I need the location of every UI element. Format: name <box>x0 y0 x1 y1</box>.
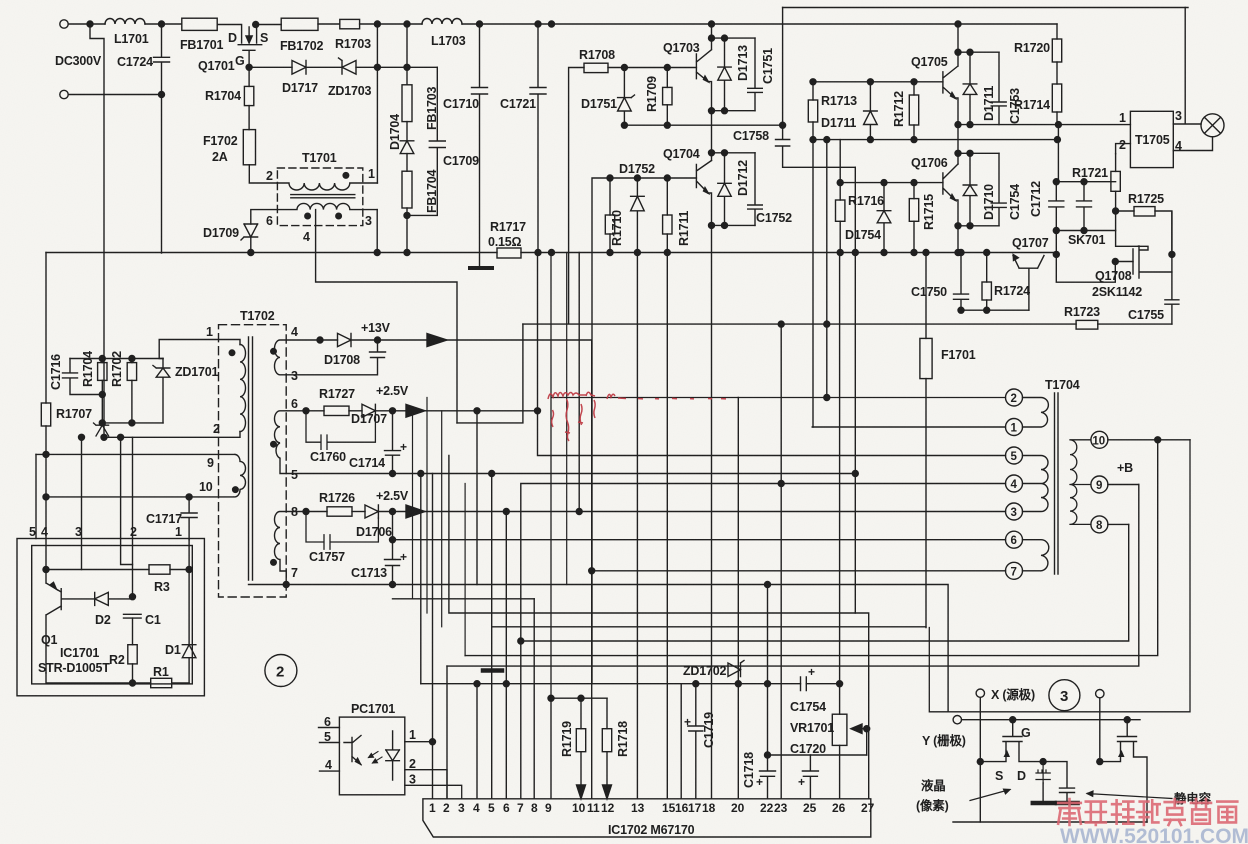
demo arrow lc <box>970 789 1010 800</box>
VR1701 wiper arrow <box>851 724 867 733</box>
row 598 <box>393 598 535 600</box>
wire T1701 pin3 down <box>376 210 378 253</box>
inductor L1703 <box>422 19 462 25</box>
row4 to T1704 pin4 <box>521 484 1006 799</box>
wire T1705 pin2 <box>1116 144 1131 154</box>
diode D1712 <box>718 153 731 226</box>
resistor R1707 <box>41 403 50 426</box>
capacitor C1721 <box>530 24 546 253</box>
PC1701 pin4 stub <box>320 770 340 772</box>
capacitor C1714 <box>385 411 401 474</box>
row 641 <box>521 524 1129 641</box>
node D1709 bus <box>248 250 254 256</box>
extra mesh columns <box>412 411 414 599</box>
diode D1710 <box>963 153 977 226</box>
cap C1714e under 13V <box>286 340 385 375</box>
wire D1712 top row <box>712 152 756 154</box>
diode D1706 <box>365 505 378 518</box>
column pin7 IC <box>520 484 522 512</box>
resistor R1708 <box>584 63 608 72</box>
T1704 circled pin 9 <box>1091 476 1108 493</box>
wire F1702 to T1701 pin2 <box>249 165 277 183</box>
resistor R3 <box>149 565 170 574</box>
column R1713 to mesh <box>812 82 814 100</box>
row pin7 <box>249 585 949 712</box>
diode D1754 <box>877 183 891 253</box>
diode D1711 <box>864 82 878 140</box>
node mesh dots <box>474 681 480 687</box>
T1704 winding c <box>1023 540 1049 571</box>
pin3 column <box>81 437 83 569</box>
phasing dot aux <box>233 487 239 493</box>
resistor R1725 <box>1116 210 1134 212</box>
node R1721 R1725 <box>1113 208 1119 214</box>
PC1701 phototransistor <box>344 736 361 765</box>
column pin22 C1718 <box>760 585 776 799</box>
wire pin5 col <box>35 454 37 538</box>
resistor R1704b <box>101 359 103 363</box>
demo terminal X <box>976 689 984 697</box>
node bus R1710 D1752 R1711 <box>607 250 613 256</box>
row C1720 <box>768 754 867 756</box>
resistor R1721 <box>1115 154 1117 172</box>
node collector Q1707 <box>1053 251 1059 257</box>
T1704 circled pin 2 <box>1006 389 1023 406</box>
R1718 chain <box>579 253 607 729</box>
row6 to T1704 pin6 <box>393 539 1006 541</box>
arrow 2.5V a <box>406 404 425 417</box>
node gate <box>246 64 252 70</box>
diode D1 <box>182 570 196 684</box>
PC1701 pin6 stub <box>319 727 340 729</box>
wire Q1705 collector to rail <box>957 24 959 52</box>
T1704 circled pin 6 <box>1006 531 1023 548</box>
snubber rail top <box>70 358 163 360</box>
T1704 winding b <box>1023 456 1049 512</box>
internal rail R3 <box>46 569 149 571</box>
node row2 <box>824 395 830 401</box>
wire D1713 C1751 top row <box>712 37 756 39</box>
node j1 <box>87 21 93 27</box>
diode D1752 <box>631 178 645 253</box>
wire Q1707 base row <box>961 309 1029 311</box>
legend circle 3 <box>1049 680 1080 711</box>
resistor R1704 <box>248 67 250 86</box>
wire terminal2 to C1724 column <box>68 94 161 96</box>
transformer T1701 dashed box <box>277 168 362 226</box>
wire rail L1703 to R1720 <box>462 23 1057 25</box>
column pin13 IC <box>636 253 638 799</box>
column pin5 IC <box>491 474 493 799</box>
red scribble wave <box>548 392 595 399</box>
transistor Q1706 <box>943 164 958 253</box>
IC1701 inner box <box>32 546 193 684</box>
transformer T1702 dashed box <box>219 325 287 597</box>
node C1709 tap <box>404 212 410 218</box>
node C1721 top <box>535 21 541 27</box>
row ZD1702 <box>421 683 840 685</box>
node bus C1724 <box>535 250 541 256</box>
PC1701 led <box>386 731 400 780</box>
column pin20 ZD1702 <box>737 398 739 799</box>
column pin17 C1719 <box>688 684 704 799</box>
node bus right dots <box>837 250 843 256</box>
fuse F1701 <box>925 253 927 339</box>
diode D1709 <box>241 224 258 240</box>
PC1701 pin2 <box>405 770 447 799</box>
wire Q1704 emitter row <box>712 224 756 226</box>
link Q1705 emitter Q1706 collector <box>957 125 959 164</box>
T1701 primary winding <box>277 183 377 190</box>
snubber rail bottom <box>102 422 163 424</box>
node pin3 bus <box>374 250 380 256</box>
lamp backlight <box>1201 114 1224 137</box>
PC1701 pin5 stub <box>320 742 340 744</box>
T1704 circled pin 3 <box>1006 503 1023 520</box>
capacitor C1709 branch <box>407 67 445 215</box>
wire rail L1701 to FB1701 <box>145 23 182 25</box>
red small blobs <box>565 422 583 433</box>
node Q1704 collector <box>709 150 715 156</box>
resistor R1702 <box>131 359 133 363</box>
column FB1703 D1704 FB1704 <box>406 24 408 85</box>
capacitor C1750 <box>954 253 969 311</box>
diode D1708 <box>338 333 352 346</box>
arrow 2.5V b <box>406 505 425 518</box>
mosfet Q1701 <box>238 25 262 68</box>
transistor Q1707 <box>1013 256 1044 311</box>
T1701 phasing dots secondary <box>305 213 311 219</box>
node j2 <box>159 21 165 27</box>
capacitor C1755 <box>1165 212 1179 324</box>
zener snubber to pin2 row <box>94 423 109 437</box>
capacitor C1717 <box>181 497 197 540</box>
wire pin10 right <box>1108 439 1190 441</box>
potentiometer VR1701 <box>839 684 841 715</box>
row 654 <box>465 440 1158 656</box>
pin1 column <box>188 540 190 570</box>
wire row T1701 tap <box>457 324 523 423</box>
row7 to T1704 pin7 <box>592 340 1006 799</box>
zener ZD1703 <box>339 58 357 74</box>
IC1701 outer box <box>17 539 204 696</box>
transistor Q1704 <box>696 161 711 226</box>
resistor R2 <box>132 618 134 645</box>
watermark chinese pseudo-glyphs <box>1058 799 1237 825</box>
resistor R1711 <box>666 178 668 215</box>
demo X column <box>979 697 981 822</box>
diode D1704 <box>400 141 414 154</box>
wire dc negative drop <box>90 24 104 437</box>
T1704 circled pin 4 <box>1006 475 1023 492</box>
node gate right <box>374 64 380 70</box>
T1701 secondary winding <box>277 203 377 209</box>
node j5 <box>404 64 410 70</box>
demo tft1 <box>980 720 1043 762</box>
left tall wire to IC1701 <box>45 253 47 404</box>
red vertical wiggles <box>552 399 596 441</box>
T1704 circled pin 5 <box>1006 447 1023 464</box>
diode D1713 <box>718 38 731 111</box>
wire pin9 right <box>1108 484 1139 486</box>
row 627 <box>492 626 926 628</box>
resistor R1717 on bus <box>497 248 521 258</box>
terminal T- DC300V <box>60 90 68 98</box>
PC1701 box <box>339 717 404 795</box>
phasing dot primary <box>229 350 235 356</box>
row 613 <box>449 456 869 799</box>
wire T1701 pin6 left <box>251 210 278 224</box>
capacitor C1753 <box>991 52 1006 124</box>
wire pin8 right <box>1108 523 1129 525</box>
T1702 secondary 6-5 <box>275 411 287 474</box>
pin2 column D2 node <box>132 437 134 596</box>
demo tft2 <box>1100 720 1147 822</box>
wire row 138 <box>813 139 1057 141</box>
column pin16 IC <box>680 684 682 799</box>
diode D1711b <box>963 52 977 124</box>
demo terminal right <box>1096 690 1104 698</box>
zener ZD1702 <box>728 661 744 677</box>
column pin4 IC <box>476 411 478 585</box>
column pin23 IC <box>780 324 782 799</box>
PC1701 led arrows <box>369 752 383 764</box>
demo terminal Y <box>953 716 961 724</box>
T1704 core <box>1055 393 1059 574</box>
column pin1 IC <box>432 474 434 799</box>
top loop wire <box>783 7 1188 9</box>
wire collector row to C1753 <box>958 51 999 53</box>
row5 feed +2.5a <box>538 253 1006 456</box>
wire Q1704 base row <box>592 178 696 684</box>
resistor R1712 <box>913 82 915 95</box>
gate wire Q1701 row <box>249 66 437 68</box>
node Q1705 collector row <box>955 49 961 55</box>
node D1713 top <box>722 35 728 41</box>
row 712 <box>929 440 1190 712</box>
gate link path <box>1056 254 1133 282</box>
legend circle 2 <box>265 655 297 687</box>
row 666 <box>447 485 1139 667</box>
node rail Q1703 <box>709 21 715 27</box>
column C1758 from top loop <box>776 8 856 168</box>
resistor R1720 <box>1056 24 1058 39</box>
wire R1703 to L1703 <box>360 23 422 25</box>
capacitor C1760 <box>306 411 375 450</box>
R1719 chain <box>551 698 607 729</box>
wire Q1706 emitter row <box>958 225 999 227</box>
IC1702 body <box>423 799 871 837</box>
totem pole link <box>711 111 713 161</box>
wire top rail left <box>68 23 105 25</box>
node FB1704 bus <box>404 250 410 256</box>
cluster C1712 SK701 <box>1049 125 1116 231</box>
node C1724 cross <box>159 92 165 98</box>
capacitor C1752 <box>748 153 763 226</box>
wire base bottoms row y125 <box>624 124 782 126</box>
diode D1717 <box>292 61 306 75</box>
T1704 right winding <box>1070 440 1091 525</box>
resistor R1727 <box>324 406 349 415</box>
red dashes along row <box>638 397 726 400</box>
mosfet Q1708 <box>1133 246 1172 278</box>
T1704 circled pin 8 <box>1091 516 1108 533</box>
column row167 to bus <box>854 167 856 613</box>
wire FB1701 to Q1701 drain <box>217 25 241 44</box>
T1701 core <box>291 195 355 198</box>
demo lc pixel <box>1040 759 1046 765</box>
PC1701 pin3 <box>405 785 462 799</box>
column R1708 left down <box>569 68 584 324</box>
demo column right terminal <box>1099 698 1101 762</box>
T1704 circled pin 1 <box>1006 419 1023 436</box>
T1704 circled pin 10 <box>1091 431 1108 448</box>
capacitor C1710 <box>472 24 488 268</box>
capacitor C1754s <box>801 677 807 691</box>
T1702 pin1 wire <box>159 340 240 359</box>
wire Q1706 base row <box>840 182 943 184</box>
ground bar under C1710 <box>470 266 492 270</box>
node row1 dots <box>778 321 784 327</box>
resistor R1715 <box>913 183 915 199</box>
fuse bead FB1701 <box>182 18 217 30</box>
wire Q1705 base row <box>813 81 943 83</box>
SECTION_TEXT <box>548 392 726 441</box>
wire rail Q1701 to FB1702 <box>256 24 282 26</box>
SECTION_RED <box>0 0 1 1</box>
diode D1707 <box>362 404 375 417</box>
resistor R1724 <box>986 253 988 283</box>
capacitor C1713 <box>385 512 401 585</box>
row pin6 +2.5V <box>286 410 324 412</box>
resistor R1703 <box>340 19 360 28</box>
node Q1703 collector tap <box>709 35 715 41</box>
wire row 153 <box>958 152 999 154</box>
resistor R1709 <box>666 68 668 88</box>
column pin9 IC <box>550 698 552 799</box>
thick cal bar <box>483 668 502 673</box>
PC1701 pin1 <box>405 741 433 743</box>
capacitor C1751 <box>748 38 763 111</box>
capacitor C1720 <box>802 755 818 799</box>
terminal T+ DC300V <box>60 20 68 28</box>
column VR feed <box>839 253 841 684</box>
T1702 secondary 8-7 <box>275 512 287 585</box>
inductor L1701 <box>105 19 145 25</box>
fuse F1702 <box>243 130 255 165</box>
capacitor C1757 <box>306 512 378 550</box>
row1 to T1704 pin1 <box>812 426 1005 428</box>
node VR top <box>837 681 843 687</box>
row pin8 +2.5V <box>286 511 327 513</box>
T1704 circled pin 7 <box>1006 562 1023 579</box>
T1702 core <box>249 337 253 580</box>
column pin15 IC <box>666 253 668 799</box>
capacitor C1754u <box>991 153 1006 226</box>
red squiggle mid <box>607 394 626 399</box>
transistor Q1703 <box>696 24 711 111</box>
transistor Q1705 <box>943 52 958 124</box>
wire FB1702 to R1703 <box>318 23 340 25</box>
node D1751 top <box>621 65 627 71</box>
node j4 <box>404 21 410 27</box>
wire T1705 pin4 to lamp <box>1173 137 1212 151</box>
resistor R1726 <box>327 507 352 516</box>
demo gate row <box>962 719 1141 721</box>
column pin6 IC <box>505 512 507 799</box>
aux winding 9-10 <box>36 454 246 497</box>
row2 to T1704 pin2 <box>551 253 1006 699</box>
T1701 phasing dot primary <box>343 173 349 179</box>
zener ZD1701 <box>153 359 170 423</box>
wire T1705 pin3 to loop <box>1173 8 1201 125</box>
T1704 winding a <box>1023 398 1049 428</box>
bottom internal rail R1 <box>46 673 151 683</box>
demo arrow cs <box>1087 791 1172 799</box>
wire R1721 to drain <box>1116 211 1138 246</box>
node C1710 top <box>477 21 483 27</box>
arrow 13V <box>427 334 447 347</box>
resistor R1710 <box>609 178 611 215</box>
bottom bus left section <box>46 252 1056 254</box>
wire Q1705 emitter row to T1705 pin1 <box>958 124 1130 126</box>
capacitor C1724 <box>154 24 170 253</box>
transistor Q1 <box>46 570 95 673</box>
T1702 secondary 4-3 <box>275 340 287 375</box>
resistor R1714 <box>1056 62 1058 84</box>
demo storage cap <box>1043 762 1074 801</box>
resistor R1 <box>151 678 172 687</box>
column pin2 IC <box>446 666 448 799</box>
capacitor C1 <box>124 614 142 618</box>
transformer T1705 box <box>1130 111 1173 167</box>
node L1703 right <box>549 21 555 27</box>
node R1709 top <box>664 65 670 71</box>
rail 13V row <box>286 339 337 341</box>
column Q1704 emitter to IC pin18 <box>711 225 713 798</box>
node Q1701 source rail <box>253 22 259 28</box>
T1702 primary winding <box>240 345 246 432</box>
wire R1708 to Q1703 base <box>608 67 696 69</box>
column Q1706 base feed R1716 <box>839 140 841 200</box>
column mesh drive Q1705 <box>826 140 828 398</box>
demo bottom rail <box>953 821 1147 823</box>
wire Q1703 emitter row <box>712 110 756 112</box>
pin aux column <box>121 437 133 564</box>
zener D1751 <box>618 68 635 126</box>
node j3 <box>374 21 380 27</box>
capacitor C1716 <box>63 359 103 395</box>
node emitter row <box>709 108 715 114</box>
wire T1701 pin4 center tap <box>316 210 457 423</box>
resistor R1723 row <box>1098 323 1172 325</box>
diode D2 <box>95 592 133 605</box>
column pin8 IC <box>533 599 535 799</box>
wire Q1701 gate-T1701 column <box>376 24 378 183</box>
fuse bead FB1702 <box>281 18 318 30</box>
T1702 pin2 wire <box>104 432 240 438</box>
node base dots <box>607 175 613 181</box>
row pin5 gnd <box>286 473 855 475</box>
small diode under node <box>45 437 47 454</box>
